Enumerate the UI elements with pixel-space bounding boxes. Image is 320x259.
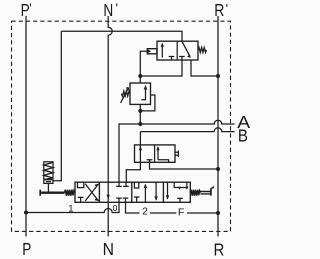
svg-text:R: R <box>214 240 225 259</box>
cell0 top blocked ports <box>116 182 129 186</box>
cell2 notch port <box>134 182 138 188</box>
junction P/lineL <box>24 211 28 215</box>
valve V2 elbow <box>158 160 169 163</box>
wire V2 to main valve <box>126 162 140 182</box>
valve V1 pilot triangle <box>147 49 151 54</box>
valve V2 left up arrow <box>139 145 141 162</box>
kick-out spring S1 seat dash <box>46 181 51 183</box>
junction V1/R <box>216 74 220 78</box>
relief valve body <box>130 83 151 104</box>
svg-text:N: N <box>103 1 113 20</box>
svg-text:': ' <box>226 1 228 16</box>
valve V2 plugged side port <box>175 150 178 157</box>
cell0 bottom blocked ports <box>116 198 128 202</box>
valve V1 spring <box>198 47 206 52</box>
kick-out spring S1 zigzag <box>44 162 53 179</box>
junction V2/R <box>216 167 220 171</box>
relief valve internal arrow <box>141 89 145 100</box>
cell1 crossed arrows X <box>85 184 98 201</box>
detent <box>201 192 211 194</box>
main valve right spring <box>190 190 200 196</box>
main valve V4 body <box>75 182 190 202</box>
valve V1 blocked ports <box>169 57 185 61</box>
cellF bracket paths <box>174 182 187 187</box>
wire main valve to R (line R) <box>126 202 219 213</box>
wire V1 pilot to relief valve <box>140 51 147 83</box>
wire P to main valve (line L) with hop over N <box>26 202 119 212</box>
kick-out spring S1 box <box>44 162 53 184</box>
svg-text:F: F <box>178 206 184 218</box>
junction lineR/R <box>216 211 220 215</box>
relief valve pilot loop <box>140 95 155 111</box>
svg-text:2: 2 <box>142 207 148 218</box>
main valve dividers <box>99 182 163 202</box>
relief valve adjust arrow <box>121 88 129 103</box>
svg-text:1: 1 <box>68 203 73 214</box>
cell2 up arrow <box>144 185 146 203</box>
valve V2 right up arrow <box>157 147 159 160</box>
valve V2 body <box>135 145 176 162</box>
wire N'-N trunk (hops over pilot wire) <box>108 16 112 236</box>
junction relief/A <box>138 122 142 126</box>
cell1 blocked port T <box>78 197 84 202</box>
valve V1 body <box>157 41 198 60</box>
wire pilot top to valve V1 <box>61 31 182 41</box>
valve V2 top wire from B <box>139 132 141 145</box>
wire riser to kick-out spring <box>53 31 61 181</box>
wire V1 exhaust to R <box>191 60 218 76</box>
junction pilot loop <box>138 109 142 113</box>
valve V1 left up arrow <box>161 44 163 58</box>
valve V2 divider <box>154 145 156 162</box>
wire R'-R trunk <box>217 16 219 236</box>
enclosure boundary (dashed) <box>12 21 231 231</box>
svg-text:R: R <box>214 2 224 21</box>
cell2 blocked port T <box>134 197 140 202</box>
valve V1 divider <box>176 41 178 60</box>
svg-text:0: 0 <box>113 203 118 213</box>
cellF down arrow <box>167 182 169 199</box>
lever rod <box>40 191 65 193</box>
valve V2 blocked port T <box>147 160 153 163</box>
svg-text:P: P <box>22 241 31 259</box>
rod stub to spring <box>47 183 49 192</box>
relief valve spring <box>121 91 130 96</box>
kick-out spring S1 seat divider <box>44 179 53 181</box>
valve V1 diagonal arrow <box>182 41 190 56</box>
svg-text:N: N <box>103 239 114 259</box>
wire P'-P trunk <box>25 16 27 237</box>
valve V1 pilot box <box>147 49 157 54</box>
cell2 down arrow <box>155 182 157 200</box>
wire V2 blocked port to R <box>150 162 219 169</box>
wire V1 bottom port to pilot junction <box>140 60 182 76</box>
cellF blocked port T <box>177 198 183 202</box>
svg-text:': ' <box>29 1 31 16</box>
cell1 notch port <box>78 182 84 187</box>
svg-text:': ' <box>116 1 118 16</box>
main valve left spring <box>65 190 75 196</box>
wire B with hop over R <box>140 128 234 132</box>
cell0 down arrowhead on N line <box>107 195 110 199</box>
relief valve bottom port <box>139 104 141 124</box>
wire A with hop over R <box>119 120 235 182</box>
svg-text:B: B <box>238 127 248 146</box>
junction pilot wire <box>138 74 142 78</box>
